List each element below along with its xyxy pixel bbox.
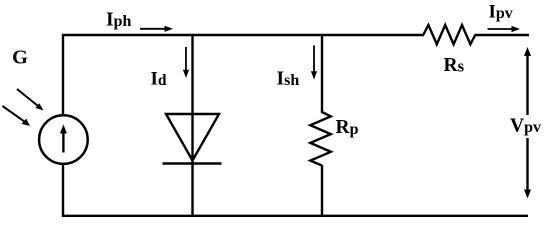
resistor Rs — [424, 25, 476, 44]
wire shunt branch upper — [321, 34, 323, 113]
wire top right (Rs to output terminal) — [475, 34, 529, 36]
resistor Rp — [310, 112, 331, 166]
diode D — [163, 114, 222, 164]
irradiance arrow 1 — [17, 89, 44, 111]
svg-text:Id: Id — [151, 69, 167, 90]
wire bottom rail — [62, 215, 528, 217]
current arrow Iph — [140, 26, 173, 32]
current arrow Ipv — [488, 26, 521, 32]
current arrow Ish — [311, 46, 317, 80]
irradiance arrow 2 — [3, 106, 31, 126]
svg-text:Rp: Rp — [336, 117, 359, 138]
wire shunt branch lower — [321, 165, 323, 217]
wire diode branch — [191, 34, 193, 217]
svg-text:Ish: Ish — [277, 69, 300, 90]
current source Iph (circle with up arrow) — [39, 115, 88, 164]
svg-text:Rs: Rs — [444, 55, 465, 76]
current arrow Id — [183, 47, 189, 78]
svg-text:Iph: Iph — [106, 9, 131, 30]
wire left upper (top rail to current source) — [62, 34, 64, 115]
svg-text:Ipv: Ipv — [489, 2, 513, 23]
wire top rail — [62, 34, 424, 36]
svg-text:Vpv: Vpv — [510, 116, 541, 137]
wire left lower (current source to bottom rail) — [62, 164, 64, 217]
voltage arrow Vpv (double headed) — [524, 47, 531, 199]
svg-text:G: G — [12, 47, 28, 69]
